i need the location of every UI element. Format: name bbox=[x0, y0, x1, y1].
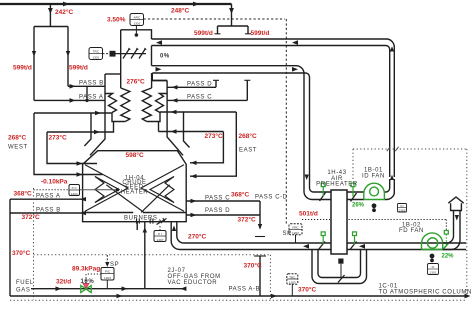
svg-text:3.50%: 3.50% bbox=[107, 17, 126, 24]
svg-text:1204: 1204 bbox=[71, 192, 78, 196]
damper actuator flue left bbox=[321, 183, 325, 187]
wire left bank bottom connector bbox=[112, 113, 125, 122]
wire offgas line bbox=[145, 288, 187, 290]
boundary trc drop vertical bbox=[269, 255, 271, 300]
wire right stub 599 right bbox=[247, 26, 249, 34]
arrow header right 1 bbox=[117, 294, 123, 299]
svg-text:VAC EDUCTOR: VAC EDUCTOR bbox=[168, 280, 218, 286]
wire FRC sense to duct bbox=[295, 235, 297, 243]
coil radiant right big chevron bbox=[141, 165, 184, 212]
arrow PASS B right bbox=[70, 84, 76, 89]
arrow west inner bottom bbox=[77, 161, 83, 165]
text labels red temperatures/flows bbox=[8, 7, 318, 294]
svg-text:PASS A: PASS A bbox=[79, 95, 104, 101]
svg-text:FD FAN: FD FAN bbox=[399, 228, 424, 234]
svg-text:0%: 0% bbox=[160, 54, 170, 60]
svg-text:599t/d: 599t/d bbox=[13, 65, 32, 72]
svg-text:1B-01: 1B-01 bbox=[364, 168, 383, 174]
arrow flue duct left mid bbox=[292, 40, 298, 45]
duct intake left line bbox=[443, 211, 454, 244]
damper actuator fd inlet bbox=[444, 231, 448, 235]
duct box bottom L3 to preheater bbox=[152, 66, 305, 185]
wire east outer top line bbox=[160, 111, 236, 113]
wire west outer wall bbox=[34, 113, 103, 175]
arrow PASS D out right bbox=[191, 213, 197, 217]
svg-text:368°C: 368°C bbox=[231, 190, 249, 198]
svg-text:1301: 1301 bbox=[430, 271, 437, 275]
arrow fuel right 2 bbox=[122, 286, 128, 291]
arrow burner riser up bbox=[143, 227, 147, 233]
damper slash at heater bottom right bbox=[157, 219, 167, 225]
signal PIC-1204 dotted left bbox=[34, 189, 70, 191]
motor fd fan bbox=[430, 254, 435, 263]
heater floor line left bbox=[83, 212, 134, 214]
coil radiant left big chevron bbox=[85, 165, 128, 212]
svg-text:FRC: FRC bbox=[292, 225, 299, 229]
svg-text:1305: 1305 bbox=[289, 281, 296, 285]
heater floor line right bbox=[143, 212, 186, 214]
svg-text:PREHEATER: PREHEATER bbox=[316, 182, 358, 188]
signal PIC-1203 output to valve bbox=[86, 274, 101, 283]
svg-text:599t/d: 599t/d bbox=[251, 30, 270, 37]
arrow air duct left 1 bbox=[303, 244, 309, 249]
wire east outer wall bbox=[190, 112, 236, 176]
duct lower line L4 bbox=[152, 73, 309, 185]
wire PASS C outlet right bbox=[186, 200, 260, 202]
text labels black bbox=[8, 54, 472, 296]
node break bar lower bbox=[254, 255, 266, 257]
tick boundary break at riser right bbox=[395, 147, 398, 151]
fan id volute bbox=[364, 183, 385, 199]
wire right channel wall outer short bbox=[184, 112, 190, 148]
fan id inner curl bbox=[370, 187, 379, 196]
coil radiant left cross diagonal bbox=[106, 185, 144, 213]
wire TRC-1305 sense down bbox=[291, 284, 293, 296]
wire PIC-1203 sense down bbox=[106, 280, 108, 289]
air preheater 1H-43 bbox=[331, 190, 347, 254]
arrow air duct left 2 bbox=[359, 244, 365, 249]
wire west inner wall bbox=[47, 132, 97, 164]
arrow down feed drop right bbox=[229, 8, 234, 14]
svg-text:EAST: EAST bbox=[239, 148, 257, 154]
svg-text:PASS A: PASS A bbox=[36, 194, 61, 200]
radiant heater 1H-04 bbox=[83, 151, 187, 225]
boundary right vertical bbox=[466, 149, 468, 300]
ID fan 1B-01 bbox=[364, 183, 385, 199]
fan fd base bbox=[422, 249, 443, 251]
arrow PASS A right bbox=[70, 98, 76, 103]
fan fd volute bbox=[422, 233, 443, 250]
boundary bottom horizontal bbox=[10, 299, 466, 301]
svg-text:SP: SP bbox=[283, 231, 292, 237]
wire right split header y=26 bbox=[218, 25, 249, 27]
wire west inner top line bbox=[47, 122, 114, 133]
dampers around preheater bbox=[319, 183, 357, 250]
svg-text:1301: 1301 bbox=[133, 22, 140, 26]
arrow west outer bottom bbox=[77, 172, 83, 176]
svg-text:1301: 1301 bbox=[92, 56, 99, 60]
svg-text:370°C: 370°C bbox=[244, 261, 262, 269]
heater shell outline bbox=[83, 151, 187, 222]
wire right 599 branch down x=68 to PASS B bbox=[67, 27, 69, 87]
instruments bbox=[34, 14, 447, 297]
wire right bank top drop bbox=[151, 73, 153, 88]
svg-text:PASS D: PASS D bbox=[187, 81, 212, 87]
arrow east outer bottom bbox=[191, 174, 197, 178]
wire PASS A line into convection bbox=[34, 99, 105, 101]
arrow header right end bbox=[465, 294, 471, 299]
wire fuel gas line bbox=[31, 288, 145, 290]
FD fan 1B-02 bbox=[422, 231, 449, 250]
svg-text:TRC: TRC bbox=[289, 275, 296, 279]
wire collector right resume down bbox=[259, 256, 261, 296]
fan id base bbox=[364, 199, 385, 201]
duct id fan discharge corner outer bbox=[385, 179, 395, 200]
arrow west top into coil bbox=[95, 111, 101, 115]
svg-text:273°C: 273°C bbox=[205, 132, 223, 140]
louver slash 2 bbox=[131, 49, 138, 59]
wire PASS D outlet right bbox=[186, 214, 260, 216]
svg-text:BURNERS: BURNERS bbox=[124, 216, 158, 222]
svg-text:270°C: 270°C bbox=[188, 232, 206, 240]
duct bypass U inner bbox=[318, 250, 361, 278]
heater outlet passes bbox=[10, 199, 468, 296]
svg-text:PASS C-D: PASS C-D bbox=[255, 194, 288, 200]
wire PASS C line from stub to bank bbox=[167, 99, 247, 101]
louver slash arrowheads bbox=[128, 48, 147, 51]
svg-text:372°C: 372°C bbox=[22, 213, 40, 221]
damper bypass actuator bbox=[338, 259, 343, 264]
wire left split header y=26.5 bbox=[34, 26, 68, 28]
svg-text:PASS C: PASS C bbox=[205, 196, 230, 202]
coil radiant right cross diagonal bbox=[141, 185, 170, 213]
svg-text:370°C: 370°C bbox=[12, 249, 30, 257]
wire PASS B line into convection bbox=[68, 85, 105, 87]
svg-text:PIC: PIC bbox=[105, 270, 111, 274]
coil radiant left accordion bbox=[95, 177, 104, 203]
wire outlet collector right down bbox=[259, 201, 261, 229]
arrow feed right mid top line bbox=[193, 2, 200, 7]
burner symbol left bbox=[137, 219, 140, 224]
svg-text:-0.10kPa: -0.10kPa bbox=[41, 179, 68, 186]
svg-text:599t/d: 599t/d bbox=[69, 65, 88, 72]
wire crude feed main top bbox=[0, 3, 232, 5]
svg-text:1203: 1203 bbox=[104, 276, 111, 280]
node break bar upper bbox=[255, 236, 265, 238]
instrument TRC-1301 stack damper controller bbox=[89, 48, 103, 60]
signal PI-1307 to slash bbox=[159, 226, 161, 231]
arrow PASS C out right bbox=[191, 199, 197, 203]
arrow intake down bbox=[455, 215, 459, 221]
svg-text:PASS C: PASS C bbox=[187, 94, 212, 100]
svg-text:32t/d: 32t/d bbox=[56, 278, 71, 285]
instrument FI-1301 fd fan bbox=[428, 264, 439, 275]
coil right short zigzag bbox=[156, 94, 168, 113]
svg-text:SP: SP bbox=[110, 262, 119, 268]
instrument FRC-1202 air flow controller bbox=[289, 224, 302, 235]
svg-text:HEATER: HEATER bbox=[121, 189, 149, 195]
wire left bank top connector bbox=[105, 73, 121, 75]
arrow header right 2 bbox=[271, 294, 277, 299]
wire box left edge bbox=[151, 46, 153, 66]
hood pentagon bbox=[448, 197, 463, 211]
boundary fans drop to damper bbox=[352, 149, 354, 182]
coil radiant right mid chevron bbox=[150, 177, 174, 203]
wire feed drop right x=231.5 bbox=[231, 4, 233, 26]
burner symbol right bbox=[150, 219, 153, 224]
wire east inner wall bbox=[190, 132, 223, 163]
arrow west inner top into coil bbox=[94, 130, 100, 134]
svg-text:1202: 1202 bbox=[292, 231, 299, 235]
instrument PIC-1204 firebox pressure bbox=[69, 185, 80, 196]
arrow offgas left end bbox=[180, 286, 186, 291]
arrow PASS A out left bbox=[80, 197, 86, 201]
boundary fans top horizontal bbox=[353, 148, 467, 150]
duct flue top line L1 bbox=[152, 39, 395, 177]
bypass damper bbox=[338, 259, 345, 283]
coil left short zigzag bbox=[105, 94, 117, 113]
wire stub PASS D bbox=[215, 80, 217, 87]
instrument TRC-1305 outlet temp bbox=[287, 274, 298, 285]
damper bypass slash bbox=[338, 275, 345, 283]
node ARC sample dot bbox=[135, 33, 139, 37]
arrow east top line bbox=[171, 110, 177, 114]
arrow up in riser duct bottom bbox=[390, 175, 394, 180]
arrow east inner bottom bbox=[191, 161, 197, 165]
wire left channel wall outer short bbox=[84, 113, 91, 146]
svg-text:1302: 1302 bbox=[399, 208, 406, 212]
signal ARC dashed to right bbox=[144, 19, 287, 224]
arrow down right branch bbox=[66, 51, 70, 57]
signal PIC-1203 SP from boundary bbox=[106, 255, 108, 264]
wire east inner top line bbox=[159, 122, 224, 132]
wire stack channel top bbox=[121, 30, 152, 39]
duct flue bottom line L2 bbox=[152, 46, 390, 178]
wire outlet header bottom bbox=[10, 295, 468, 297]
svg-text:FI: FI bbox=[432, 265, 435, 269]
node T-bar stub left bbox=[215, 33, 221, 35]
svg-text:PASS D: PASS D bbox=[205, 208, 230, 214]
wire burner riser bbox=[144, 222, 146, 289]
node T-bar pass C stub bbox=[244, 79, 250, 81]
wire right bank top connector bbox=[152, 73, 167, 81]
wire L4 left step to conv wall bbox=[152, 73, 167, 81]
instrument KI-1302 id fan bbox=[398, 204, 407, 213]
node junction dot pass A bbox=[85, 99, 88, 102]
convection section bbox=[34, 73, 250, 155]
wire feed drop left at x=50 bbox=[49, 4, 51, 27]
boundary left vertical bbox=[33, 188, 35, 300]
wire PASS A outlet left bbox=[10, 198, 83, 200]
node pressure tap dot bbox=[116, 188, 119, 191]
svg-text:89.3kPag: 89.3kPag bbox=[72, 265, 100, 272]
air intake stack hood bbox=[443, 197, 464, 250]
firebox pressure tap bbox=[80, 189, 118, 191]
svg-text:1307: 1307 bbox=[157, 238, 164, 242]
wire ARC sample line bbox=[135, 26, 137, 35]
svg-text:PASS B: PASS B bbox=[36, 207, 61, 213]
fan fd inner curl bbox=[427, 238, 437, 248]
wire right stub 599 left bbox=[217, 26, 219, 34]
arrow collector down into bar bbox=[258, 224, 262, 230]
svg-text:598°C: 598°C bbox=[126, 151, 144, 159]
svg-text:PASS B: PASS B bbox=[79, 81, 104, 87]
svg-text:10%: 10% bbox=[81, 279, 95, 285]
coil right tall zigzag bbox=[142, 88, 151, 122]
instrument PIC-1203 fuel pressure bbox=[101, 268, 114, 281]
arrow fuel right 1 bbox=[56, 286, 62, 291]
arrow duct2 right mid bbox=[292, 67, 298, 72]
svg-text:599t/d: 599t/d bbox=[194, 30, 213, 37]
coil radiant left mid chevron bbox=[95, 177, 119, 203]
svg-text:PASS A-B: PASS A-B bbox=[229, 286, 261, 292]
wire stack channel left wall bbox=[120, 30, 122, 88]
arrow up in riser duct top bbox=[390, 46, 394, 51]
coil left tall zigzag bbox=[121, 88, 130, 122]
wire left 599 branch down x=34 to PASS A bbox=[33, 27, 35, 101]
damper flue right slash bbox=[351, 193, 357, 202]
wire PASS B outlet left bbox=[10, 212, 83, 214]
west and east wall boxes bbox=[34, 112, 236, 176]
damper air right slash bbox=[350, 242, 357, 250]
louver line TRC damper bbox=[116, 53, 147, 55]
damper flue left slash bbox=[320, 193, 326, 202]
wire burner stub 2 bbox=[136, 222, 138, 230]
instrument ARC-1301 O2 analyzer controller bbox=[130, 14, 144, 26]
arrow air duct up into heater bbox=[172, 226, 176, 232]
svg-text:WEST: WEST bbox=[8, 145, 28, 151]
svg-text:26%: 26% bbox=[352, 203, 365, 209]
duct id fan discharge corner inner bbox=[385, 179, 390, 192]
damper actuator louver bbox=[110, 51, 116, 57]
fuel gas system bbox=[31, 222, 186, 289]
wire west outer top line bbox=[34, 112, 113, 114]
svg-text:FUEL: FUEL bbox=[16, 280, 34, 286]
svg-text:268°C: 268°C bbox=[239, 132, 257, 140]
wire right bank bottom connector bbox=[147, 113, 160, 122]
arrow down feed drop left bbox=[48, 8, 53, 14]
svg-text:276°C: 276°C bbox=[127, 78, 145, 86]
svg-text:370°C: 370°C bbox=[298, 285, 316, 293]
svg-text:372°C: 372°C bbox=[238, 215, 256, 223]
svg-text:248°C: 248°C bbox=[171, 7, 189, 15]
damper air left slash bbox=[319, 242, 326, 250]
duct air main bottom line bbox=[171, 222, 466, 250]
duct air main top line bbox=[177, 222, 466, 243]
svg-text:ARC: ARC bbox=[134, 15, 141, 19]
svg-text:P I: P I bbox=[158, 232, 162, 236]
node T-bar pass D stub bbox=[213, 79, 219, 81]
boundary sp line horizontal bbox=[34, 254, 271, 256]
louver slash 1 bbox=[123, 49, 130, 59]
arrow pass C into bank bbox=[172, 98, 178, 102]
flue duct assembly bbox=[116, 30, 395, 185]
tick boundary break at riser left bbox=[387, 147, 399, 151]
motor id fan bbox=[372, 203, 377, 212]
svg-text:TO ATMOSPHERIC COLUMN: TO ATMOSPHERIC COLUMN bbox=[379, 289, 472, 295]
arrow feed right on top line bbox=[63, 2, 70, 7]
damper actuator air left bbox=[321, 232, 325, 236]
wire left channel wall inner bbox=[90, 74, 105, 155]
duct bypass U outer bbox=[312, 250, 367, 284]
damper slash ticks bbox=[160, 218, 166, 223]
valve fuel gas control (green globe) bbox=[81, 283, 91, 292]
svg-text:22%: 22% bbox=[442, 254, 455, 260]
node T-bar stub right bbox=[245, 33, 251, 35]
svg-text:TRC: TRC bbox=[93, 49, 100, 53]
arrow pass D into bank bbox=[172, 85, 178, 89]
wire outlet collector left down bbox=[9, 199, 11, 296]
svg-text:P C: P C bbox=[72, 186, 78, 190]
damper fd inlet slash bbox=[443, 243, 449, 249]
arrow SP down bbox=[105, 262, 109, 267]
svg-text:368°C: 368°C bbox=[14, 190, 32, 198]
louver slash 3 bbox=[139, 49, 146, 59]
damper actuator air right bbox=[353, 232, 357, 236]
dotted battery limit boundaries bbox=[10, 149, 467, 300]
svg-text:GAS: GAS bbox=[16, 288, 30, 294]
coil radiant right accordion bbox=[165, 177, 174, 203]
valve actuator diaphragm red bbox=[83, 283, 89, 288]
duct flue u-bottom top line preheater bbox=[310, 185, 365, 192]
svg-text:268°C: 268°C bbox=[8, 134, 26, 142]
air and flue ducts lower bbox=[171, 179, 466, 284]
signal TRC to damper actuator bbox=[103, 53, 109, 55]
text labels green bbox=[352, 203, 454, 260]
arrow duct2 right near box bbox=[156, 67, 162, 72]
instrument PI-1307 burner area bbox=[154, 231, 166, 242]
svg-text:273°C: 273°C bbox=[49, 134, 67, 142]
svg-text:501t/d: 501t/d bbox=[299, 210, 318, 217]
duct flue u-bottom bottom line preheater bbox=[304, 185, 364, 200]
wire jumper pass B to pass A x=87 bbox=[86, 86, 88, 100]
damper actuator flue right bbox=[351, 183, 355, 187]
svg-text:ID FAN: ID FAN bbox=[362, 174, 385, 180]
duct intake right line bbox=[443, 211, 460, 250]
arrow east inner top line bbox=[171, 129, 177, 133]
arrow PASS B out left bbox=[80, 211, 86, 215]
wire pressure sense line bbox=[80, 189, 118, 191]
arrow down left branch bbox=[32, 51, 36, 57]
arrow down duct2 vertical bbox=[305, 175, 309, 181]
wire PASS D line from stub to bank bbox=[167, 86, 216, 88]
wire stub PASS C bbox=[246, 80, 248, 100]
arrow flue duct left near box bbox=[156, 40, 162, 45]
signal FRC to FD damper dotted bbox=[302, 220, 446, 231]
svg-text:242°C: 242°C bbox=[55, 8, 73, 16]
wire right channel wall inner bbox=[167, 81, 183, 156]
